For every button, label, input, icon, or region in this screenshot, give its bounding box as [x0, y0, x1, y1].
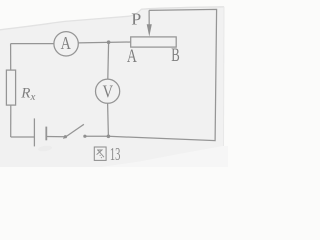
wire left side upper [10, 44, 12, 71]
node (top, junction of voltmeter branch) [107, 40, 111, 44]
voltmeter V1 [96, 79, 120, 103]
resistor Rx body [6, 70, 15, 105]
wire switch to battery [46, 136, 65, 138]
wire bottom node to switch [85, 135, 109, 137]
rheostat R (slide box) [131, 37, 177, 47]
switch S lever [63, 124, 84, 138]
wire node to voltmeter top [107, 42, 110, 79]
svg-text:A: A [61, 33, 71, 53]
svg-text:V: V [103, 82, 114, 102]
wire ammeter to rheostat (through node) [78, 41, 130, 44]
scanned paper background [98, 146, 229, 168]
wire left side lower (resistor to corner) [10, 105, 12, 137]
ammeter A1 [54, 32, 78, 56]
wire voltmeter bottom to node [107, 103, 110, 136]
wire top-left horizontal [11, 43, 54, 45]
caption 图 (drawn glyph) [94, 147, 106, 160]
svg-text:B: B [171, 45, 180, 66]
switch right contact [83, 135, 86, 138]
battery positive plate (long) [33, 118, 35, 146]
wiper arrowhead [147, 24, 152, 36]
svg-text:A: A [127, 46, 137, 67]
switch left contact [64, 135, 67, 138]
svg-text:13: 13 [110, 144, 121, 164]
battery negative plate (short) [45, 127, 47, 141]
node (bottom, junction of voltmeter branch) [107, 135, 111, 139]
wiper arrow P shaft [148, 10, 150, 25]
decorative: skip-label smudge [38, 145, 53, 152]
wire wiper to top-right corner and down right side [108, 9, 216, 140]
wire battery to bottom-left corner [11, 136, 35, 138]
svg-text:P: P [131, 10, 141, 29]
